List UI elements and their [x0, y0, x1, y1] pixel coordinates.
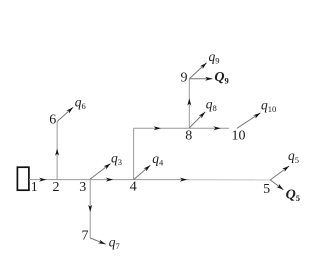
wire 8-10: [189, 127, 229, 129]
flow arrow on wire 8-9: [187, 98, 191, 105]
wire 2-3: [57, 179, 90, 181]
q9 demand arrow at node 9: [189, 63, 206, 79]
svg-text:2: 2: [53, 180, 60, 195]
svg-text:5: 5: [263, 182, 270, 197]
Q9 outflow arrow at node 9: [189, 78, 212, 80]
flow arrow on wire 8-10: [214, 126, 221, 130]
wire 1-2: [29, 179, 57, 181]
svg-text:3: 3: [79, 180, 86, 195]
wire 3-7: [89, 180, 91, 238]
svg-text:6: 6: [49, 112, 56, 127]
wire 3-4: [90, 179, 133, 181]
q6 demand arrow at node 6: [57, 107, 73, 121]
wire 2-6: [56, 122, 58, 180]
flow arrow on wire 3-7: [88, 205, 92, 212]
wire 4-5: [134, 179, 189, 181]
svg-text:7: 7: [82, 229, 89, 244]
q5 demand arrow at node 5: [270, 166, 289, 180]
flow arrow on wire 4-8: [154, 126, 161, 130]
q4 demand arrow at node 4: [134, 165, 151, 179]
svg-text:8: 8: [185, 128, 192, 143]
flow arrow on wire 4-5: [180, 178, 187, 182]
svg-text:4: 4: [130, 180, 137, 195]
svg-text:1: 1: [31, 180, 38, 195]
svg-text:10: 10: [232, 129, 246, 144]
q8 demand arrow at node 8: [189, 112, 205, 128]
flow arrow on wire 1-2: [39, 178, 46, 182]
Q5 outflow arrow at node 5: [270, 180, 283, 190]
q10 demand arrow at node 10: [237, 113, 260, 128]
q3 demand arrow at node 3: [90, 164, 111, 180]
q7 demand arrow at node 7: [90, 238, 105, 244]
svg-text:9: 9: [181, 71, 188, 86]
wire 8-9: [188, 79, 190, 128]
wire 4-8 horizontal run: [134, 127, 190, 129]
reservoir tank at node 1: [17, 167, 29, 190]
flow arrow on wire 2-6: [55, 149, 59, 156]
flow arrow on wire 3-4: [106, 178, 113, 182]
wire 4-8 riser: [133, 128, 135, 179]
